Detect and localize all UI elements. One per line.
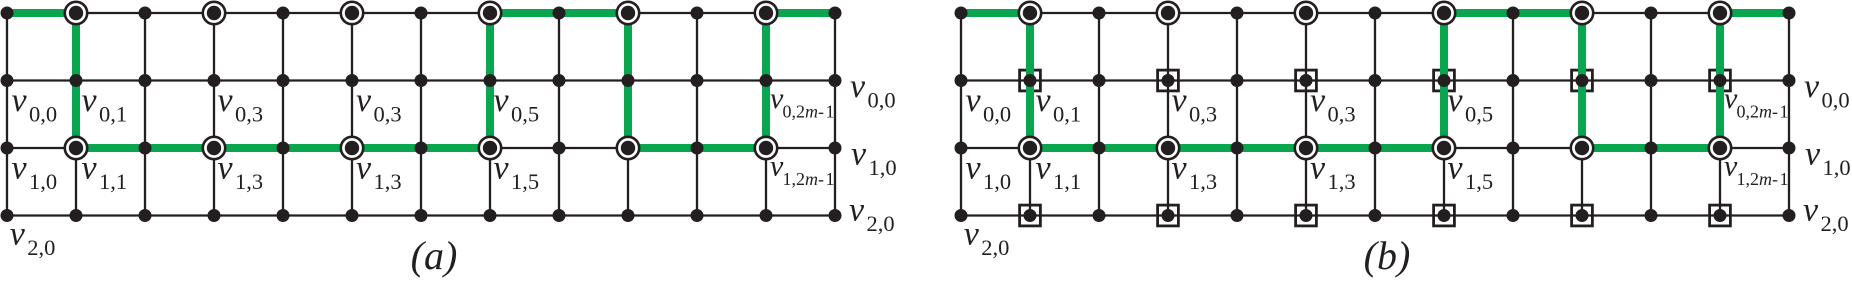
svg-text:v: v bbox=[1036, 82, 1052, 119]
svg-text:v: v bbox=[494, 82, 510, 119]
svg-text:0,1: 0,1 bbox=[99, 102, 127, 127]
svg-text:1,5: 1,5 bbox=[1465, 169, 1493, 194]
svg-text:1,0: 1,0 bbox=[1823, 155, 1851, 180]
svg-text:0,5: 0,5 bbox=[511, 102, 539, 127]
svg-text:1,2m-1: 1,2m-1 bbox=[783, 169, 835, 189]
svg-text:1,0: 1,0 bbox=[869, 155, 897, 180]
svg-text:v: v bbox=[849, 192, 865, 229]
svg-text:0,3: 0,3 bbox=[1328, 102, 1356, 127]
svg-text:0,3: 0,3 bbox=[374, 102, 402, 127]
svg-text:v: v bbox=[966, 82, 982, 119]
svg-text:0,5: 0,5 bbox=[1465, 102, 1493, 127]
svg-text:2,0: 2,0 bbox=[1821, 211, 1849, 236]
svg-text:v: v bbox=[966, 150, 982, 187]
svg-text:1,3: 1,3 bbox=[1189, 169, 1217, 194]
svg-text:v: v bbox=[10, 215, 26, 252]
svg-text:v: v bbox=[1036, 150, 1052, 187]
svg-text:v: v bbox=[1172, 150, 1188, 187]
svg-text:0,3: 0,3 bbox=[235, 102, 263, 127]
svg-text:0,2m-1: 0,2m-1 bbox=[1737, 102, 1789, 122]
svg-text:v: v bbox=[494, 150, 510, 187]
svg-text:v: v bbox=[82, 82, 98, 119]
svg-text:1,3: 1,3 bbox=[1328, 169, 1356, 194]
svg-text:v: v bbox=[1448, 82, 1464, 119]
svg-text:v: v bbox=[218, 82, 234, 119]
svg-text:0,0: 0,0 bbox=[29, 102, 57, 127]
svg-text:v: v bbox=[1805, 136, 1821, 173]
svg-text:0,0: 0,0 bbox=[983, 102, 1011, 127]
svg-text:v: v bbox=[82, 150, 98, 187]
svg-text:v: v bbox=[1172, 82, 1188, 119]
svg-text:1,0: 1,0 bbox=[29, 169, 57, 194]
svg-text:1,3: 1,3 bbox=[235, 169, 263, 194]
svg-text:0,2m-1: 0,2m-1 bbox=[783, 102, 835, 122]
svg-text:0,3: 0,3 bbox=[1189, 102, 1217, 127]
svg-text:(b): (b) bbox=[1364, 233, 1411, 278]
svg-text:1,0: 1,0 bbox=[983, 169, 1011, 194]
svg-text:v: v bbox=[850, 68, 866, 105]
svg-text:2,0: 2,0 bbox=[867, 211, 895, 236]
svg-text:1,2m-1: 1,2m-1 bbox=[1737, 169, 1789, 189]
svg-text:v: v bbox=[851, 136, 867, 173]
svg-text:2,0: 2,0 bbox=[27, 235, 55, 260]
svg-text:0,0: 0,0 bbox=[868, 88, 896, 113]
svg-text:2,0: 2,0 bbox=[981, 235, 1009, 260]
svg-text:v: v bbox=[1310, 150, 1326, 187]
svg-text:v: v bbox=[1803, 192, 1819, 229]
svg-text:0,0: 0,0 bbox=[1822, 88, 1850, 113]
svg-text:v: v bbox=[356, 150, 372, 187]
svg-text:1,1: 1,1 bbox=[1053, 169, 1081, 194]
svg-text:(a): (a) bbox=[411, 233, 458, 278]
svg-text:v: v bbox=[12, 82, 28, 119]
svg-text:1,5: 1,5 bbox=[511, 169, 539, 194]
svg-text:v: v bbox=[964, 215, 980, 252]
svg-text:v: v bbox=[356, 82, 372, 119]
svg-text:1,3: 1,3 bbox=[374, 169, 402, 194]
svg-text:v: v bbox=[12, 150, 28, 187]
svg-text:v: v bbox=[1804, 68, 1820, 105]
svg-text:v: v bbox=[1310, 82, 1326, 119]
svg-text:1,1: 1,1 bbox=[99, 169, 127, 194]
svg-text:v: v bbox=[218, 150, 234, 187]
svg-text:v: v bbox=[1448, 150, 1464, 187]
svg-text:0,1: 0,1 bbox=[1053, 102, 1081, 127]
